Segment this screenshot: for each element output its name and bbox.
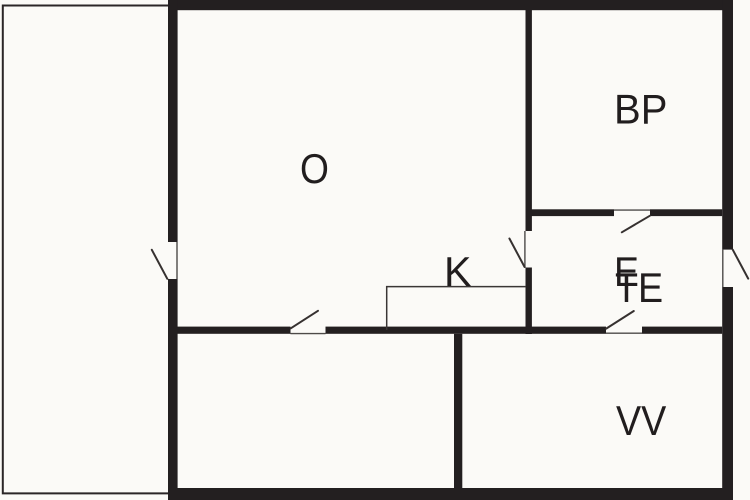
door swing: main wall right door — [606, 311, 634, 329]
wall: interior horizontal main right segment — [642, 327, 722, 334]
wall: right exterior lower segment — [722, 287, 733, 500]
door swing: BP to E door — [622, 216, 650, 233]
svg-text:TE: TE — [615, 264, 663, 311]
door swing: O to E door — [509, 239, 524, 268]
threshold: right wall exterior door — [722, 250, 724, 287]
svg-text:VV: VV — [616, 397, 666, 444]
wall: interior horizontal BP/E left segment — [526, 209, 615, 216]
wall: interior horizontal main middle segment — [326, 327, 607, 334]
threshold: main wall left door — [291, 333, 326, 335]
wall: interior vertical bottom rooms divider — [454, 334, 462, 488]
wall: interior horizontal BP/E right segment — [650, 209, 722, 216]
svg-text:BP: BP — [614, 86, 667, 133]
door swing: right wall exterior door — [733, 250, 748, 279]
wall: interior vertical O/BP upper segment — [526, 10, 532, 231]
svg-text:O: O — [300, 145, 329, 192]
terrace outline — [3, 6, 172, 494]
wall: left exterior lower segment — [168, 279, 178, 500]
wall: right exterior upper segment — [722, 0, 733, 250]
kitchen counter outline — [387, 287, 526, 330]
door swing: terrace door — [152, 250, 168, 279]
threshold: terrace door — [176, 242, 178, 279]
wall: interior horizontal main left segment — [177, 327, 291, 334]
door threshold thin lines — [177, 210, 723, 334]
wall: bottom exterior — [168, 488, 733, 500]
door swing: main wall left door — [291, 311, 318, 329]
svg-text:K: K — [444, 248, 472, 295]
wall: top exterior — [168, 0, 733, 10]
wall: interior vertical O/E lower segment — [526, 268, 532, 335]
threshold: O to E door — [524, 231, 526, 268]
threshold: BP to E door — [614, 209, 650, 211]
wall: left exterior upper segment — [168, 0, 178, 242]
door swing lines — [152, 216, 748, 329]
threshold: main wall right door — [606, 332, 642, 334]
